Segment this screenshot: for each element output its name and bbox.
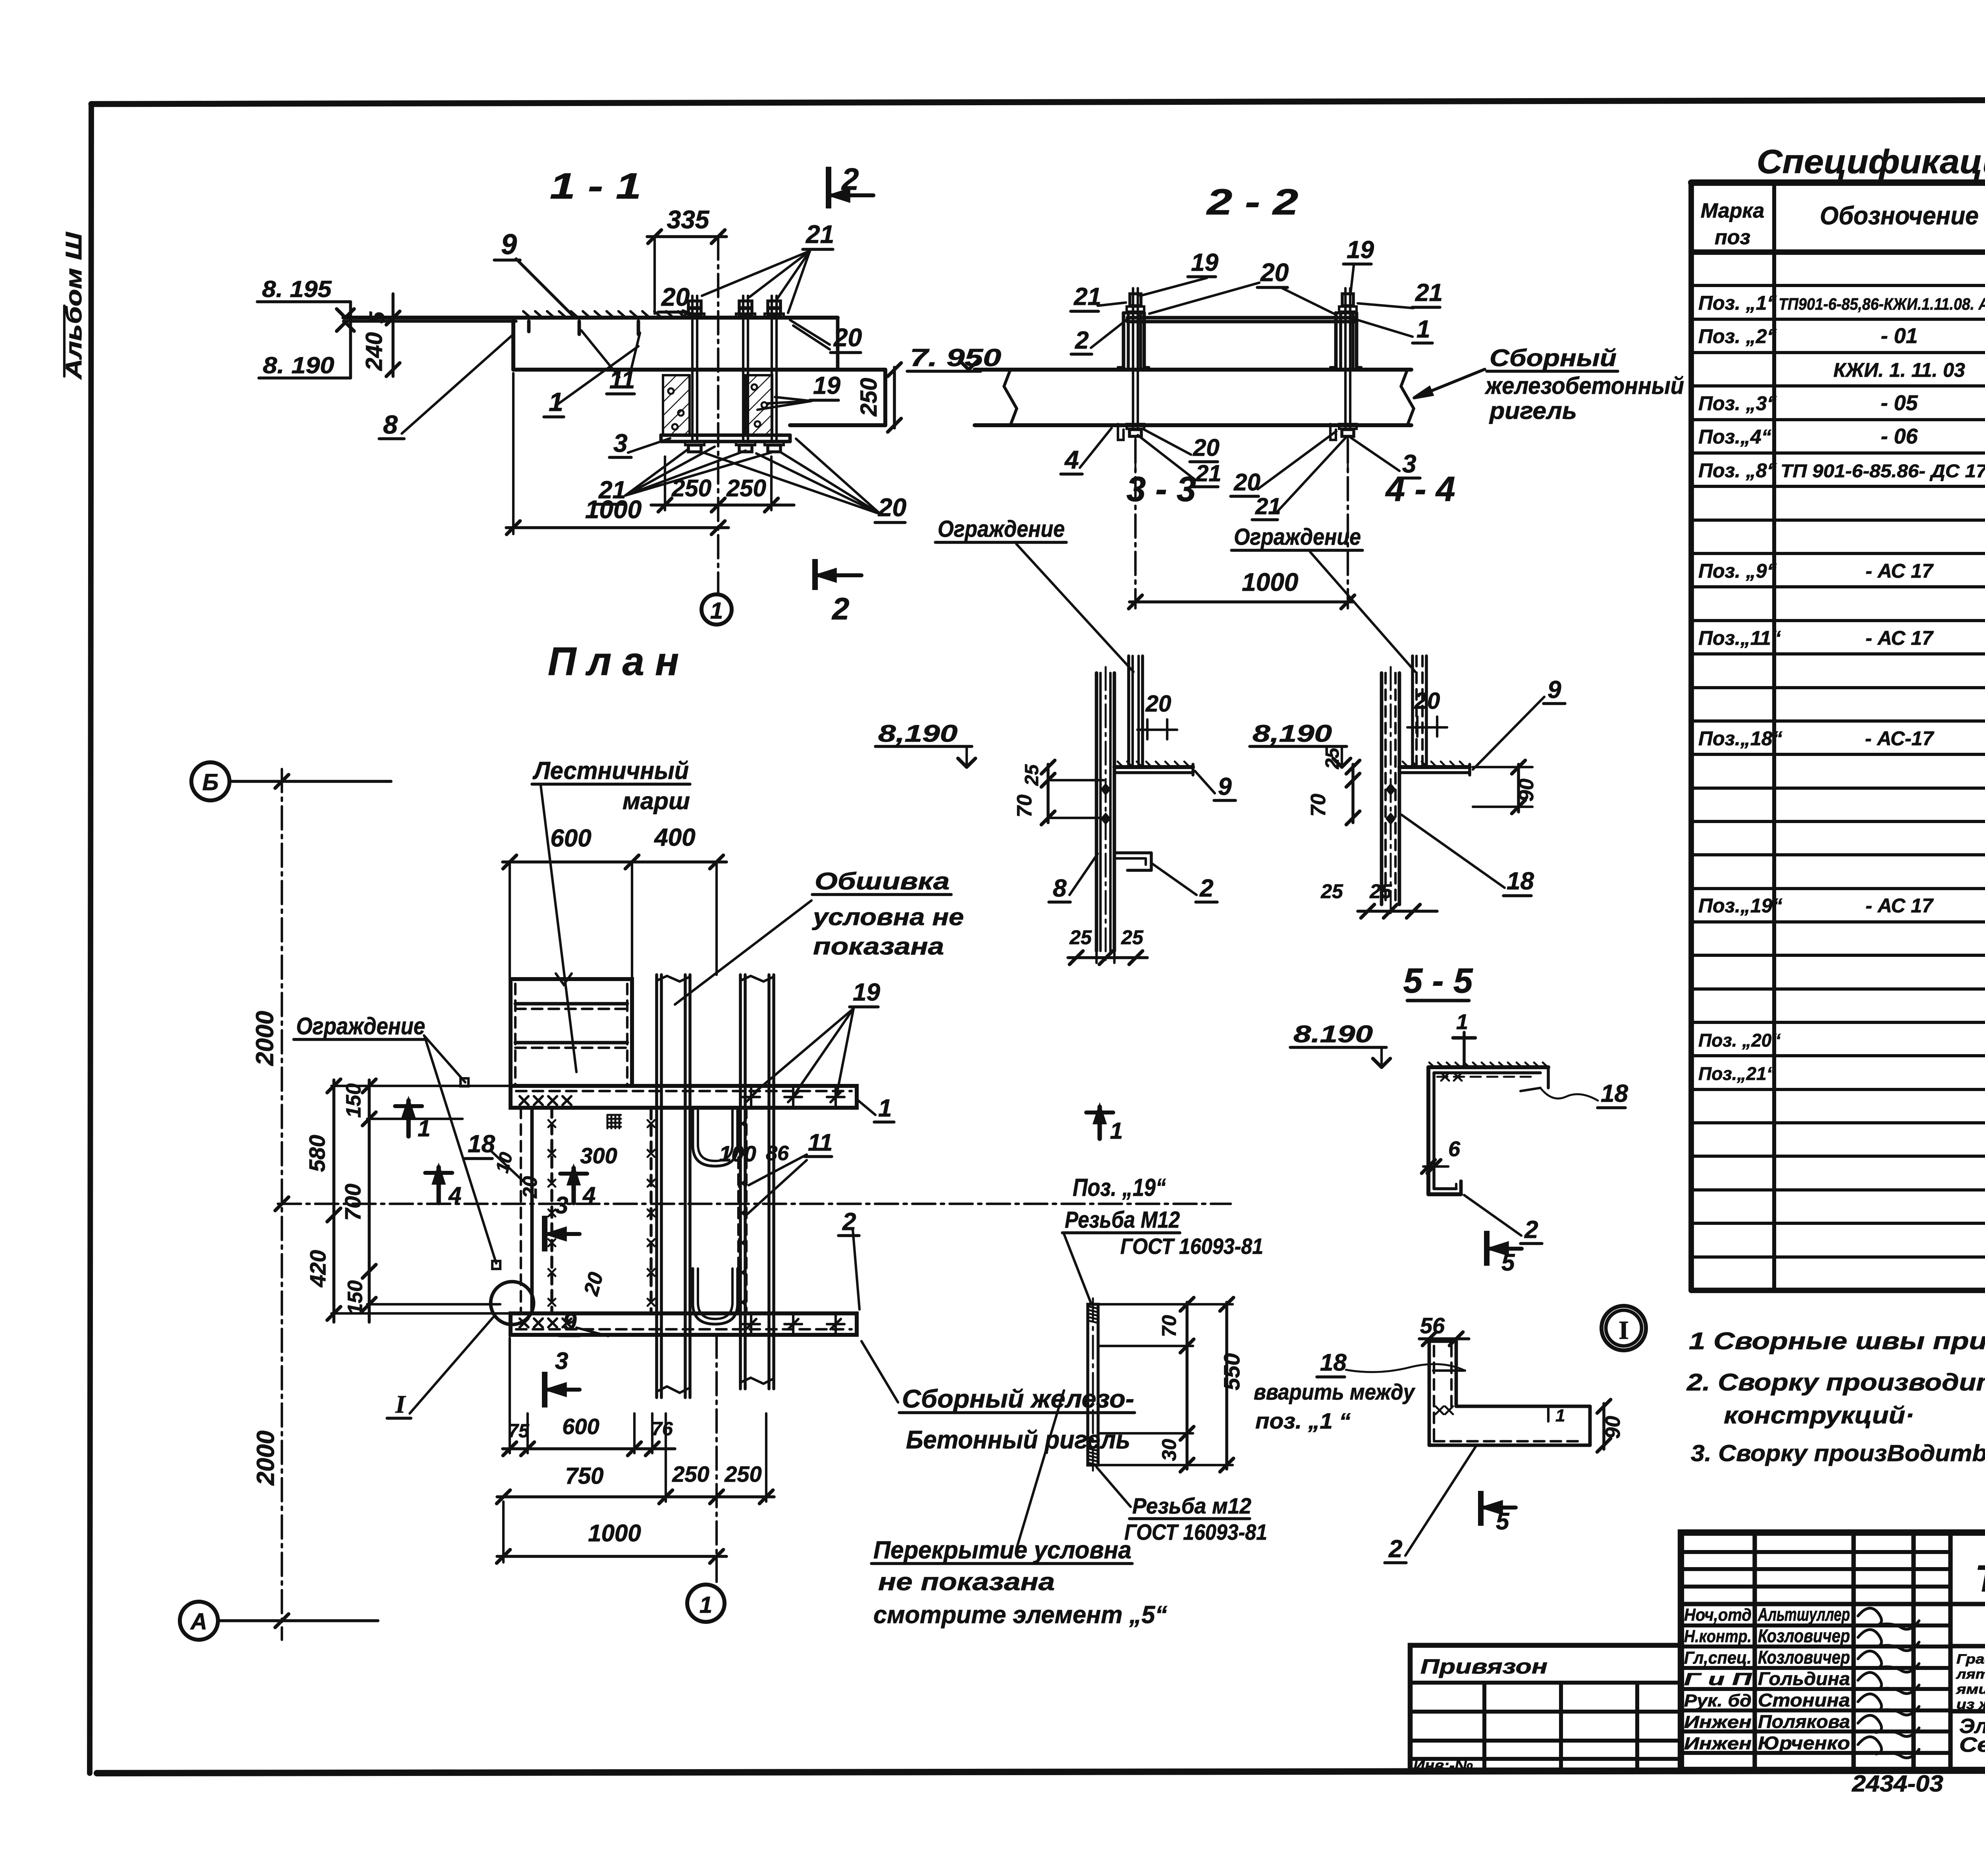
- svg-text:Поз. „3“: Поз. „3“: [1698, 392, 1777, 415]
- svg-text:П л а н: П л а н: [548, 639, 679, 684]
- svg-text:3 - 3: 3 - 3: [1127, 469, 1196, 509]
- svg-text:условна не: условна не: [812, 904, 964, 930]
- svg-text:20: 20: [1193, 434, 1220, 461]
- svg-text:250: 250: [726, 475, 766, 501]
- svg-text:2: 2: [831, 591, 849, 626]
- svg-text:Полякова: Полякова: [1758, 1711, 1850, 1732]
- svg-text:20: 20: [833, 323, 862, 352]
- svg-text:20: 20: [661, 283, 690, 311]
- svg-text:Б: Б: [202, 769, 218, 795]
- svg-text:Поз. „2“: Поз. „2“: [1698, 325, 1777, 347]
- svg-text:25: 25: [1069, 926, 1092, 949]
- svg-text:30: 30: [1158, 1439, 1180, 1461]
- svg-text:400: 400: [653, 824, 695, 851]
- svg-text:Инв:-№: Инв:-№: [1413, 1757, 1473, 1774]
- svg-text:18: 18: [1320, 1349, 1347, 1376]
- svg-text:ГОСТ 16093-81: ГОСТ 16093-81: [1124, 1519, 1267, 1544]
- svg-text:8: 8: [1053, 875, 1067, 902]
- svg-text:2434-03: 2434-03: [1852, 1771, 1943, 1797]
- svg-text:Юрченко: Юрченко: [1758, 1733, 1850, 1753]
- svg-text:21: 21: [1415, 279, 1443, 307]
- svg-text:Рук. бд: Рук. бд: [1684, 1691, 1752, 1710]
- svg-text:2: 2: [1388, 1535, 1402, 1563]
- svg-text:1 - 1: 1 - 1: [550, 166, 641, 206]
- svg-text:2: 2: [1524, 1216, 1538, 1244]
- svg-text:вварить между: вварить между: [1254, 1379, 1416, 1404]
- svg-text:5 - 5: 5 - 5: [1403, 961, 1473, 1000]
- svg-text:ГОСТ 16093-81: ГОСТ 16093-81: [1120, 1234, 1263, 1259]
- svg-text:21: 21: [598, 476, 626, 504]
- svg-text:580: 580: [304, 1135, 330, 1172]
- svg-text:Лестничный: Лестничный: [532, 757, 689, 785]
- svg-text:335: 335: [667, 205, 710, 234]
- svg-text:Г и П: Г и П: [1684, 1670, 1752, 1689]
- svg-text:2: 2: [1199, 875, 1213, 902]
- svg-text:6: 6: [1448, 1137, 1461, 1161]
- svg-text:25: 25: [1021, 764, 1043, 786]
- svg-text:3. Сворку произВодитb электр: 3. Сворку произВодитb электродами Э-42 п…: [1691, 1440, 1985, 1466]
- svg-text:Ограждение: Ограждение: [1234, 524, 1361, 550]
- svg-text:Поз.„19“: Поз.„19“: [1698, 895, 1783, 917]
- svg-text:Ограждение: Ограждение: [296, 1013, 425, 1039]
- svg-text:700: 700: [340, 1184, 365, 1220]
- svg-text:марш: марш: [622, 788, 690, 814]
- svg-text:18: 18: [1601, 1080, 1628, 1107]
- svg-text:150: 150: [342, 1084, 365, 1118]
- svg-text:70: 70: [1158, 1315, 1180, 1337]
- svg-text:20: 20: [1414, 688, 1440, 714]
- svg-text:- АС 17: - АС 17: [1866, 560, 1934, 582]
- svg-text:90: 90: [1515, 779, 1538, 802]
- svg-text:5: 5: [1501, 1249, 1515, 1276]
- svg-text:Инжен: Инжен: [1684, 1712, 1752, 1732]
- svg-text:11: 11: [808, 1129, 833, 1156]
- svg-text:75: 75: [508, 1421, 530, 1442]
- svg-text:Инжен: Инжен: [1684, 1734, 1752, 1753]
- svg-text:Поз. „19“: Поз. „19“: [1073, 1174, 1166, 1201]
- svg-text:1: 1: [1456, 1010, 1468, 1034]
- svg-text:19: 19: [853, 979, 880, 1006]
- svg-text:ТП 901- 6 -85.86-: ТП 901- 6 -85.86-: [1975, 1558, 1985, 1600]
- svg-text:Поз.„18“: Поз.„18“: [1698, 727, 1783, 750]
- svg-text:Гл,спец.: Гл,спец.: [1684, 1648, 1752, 1668]
- svg-text:Перекрытие условна: Перекрытие условна: [873, 1537, 1131, 1564]
- svg-text:Ограждение: Ограждение: [938, 516, 1065, 542]
- svg-text:- АС-17: - АС-17: [1865, 727, 1935, 750]
- svg-text:Поз.„21“: Поз.„21“: [1698, 1063, 1776, 1084]
- svg-text:18: 18: [468, 1130, 495, 1158]
- svg-text:19: 19: [813, 372, 840, 399]
- svg-text:Сборный: Сборный: [1490, 345, 1617, 371]
- svg-text:- 01: - 01: [1881, 324, 1918, 348]
- svg-text:конструкций·: конструкций·: [1724, 1402, 1914, 1429]
- svg-text:железобетонный: железобетонный: [1484, 372, 1684, 399]
- svg-text:20: 20: [1145, 691, 1172, 717]
- svg-text:76: 76: [651, 1419, 673, 1440]
- svg-text:420: 420: [305, 1250, 330, 1287]
- svg-text:- АС 17: - АС 17: [1866, 895, 1934, 917]
- svg-text:Поз. „8“: Поз. „8“: [1698, 459, 1777, 482]
- svg-text:1: 1: [878, 1095, 892, 1122]
- svg-text:25: 25: [1369, 880, 1392, 902]
- svg-text:1: 1: [700, 1592, 712, 1618]
- svg-text:21: 21: [1195, 461, 1222, 486]
- svg-text:Козловичер: Козловичер: [1758, 1647, 1850, 1668]
- svg-text:1: 1: [418, 1116, 430, 1141]
- svg-text:600: 600: [550, 825, 591, 852]
- svg-text:5: 5: [1496, 1508, 1510, 1535]
- svg-text:Поз.„11“: Поз.„11“: [1698, 627, 1781, 649]
- svg-text:Обозночение: Обозночение: [1820, 201, 1979, 230]
- svg-text:250: 250: [724, 1461, 761, 1487]
- svg-text:не показана: не показана: [878, 1568, 1055, 1596]
- svg-text:8: 8: [383, 410, 398, 439]
- svg-text:25: 25: [1121, 926, 1144, 949]
- svg-text:Градцрня двухсекционная с вент: Градцрня двухсекционная с венти-: [1956, 1652, 1985, 1667]
- svg-text:Поз. „1“: Поз. „1“: [1698, 292, 1777, 314]
- svg-text:90: 90: [1601, 1416, 1625, 1439]
- svg-text:25: 25: [1322, 747, 1343, 769]
- svg-text:4: 4: [448, 1182, 461, 1208]
- svg-text:1: 1: [1555, 1406, 1565, 1425]
- svg-text:3: 3: [555, 1348, 568, 1374]
- svg-text:9: 9: [501, 229, 517, 260]
- svg-text:поз. „1 “: поз. „1 “: [1255, 1408, 1351, 1433]
- svg-text:25: 25: [1320, 880, 1343, 902]
- svg-text:показана: показана: [813, 933, 944, 960]
- svg-text:1: 1: [1416, 316, 1430, 343]
- svg-text:Hоч,отд: Hоч,отд: [1684, 1605, 1752, 1625]
- svg-text:5: 5: [365, 311, 389, 324]
- svg-text:9: 9: [563, 1308, 577, 1336]
- svg-text:Резьба м12: Резьба м12: [1132, 1493, 1251, 1518]
- svg-text:I: I: [395, 1390, 406, 1418]
- svg-text:Поз. „20“: Поз. „20“: [1698, 1030, 1781, 1051]
- svg-text:1000: 1000: [588, 1520, 641, 1546]
- svg-text:1000: 1000: [1242, 568, 1298, 596]
- svg-text:240: 240: [361, 332, 387, 371]
- svg-text:ляторами 38Г25 капельноя с сек: ляторами 38Г25 капельноя с секци-: [1956, 1667, 1985, 1682]
- svg-text:Козловичер: Козловичер: [1758, 1625, 1850, 1646]
- svg-text:ригель: ригель: [1489, 397, 1577, 424]
- svg-text:250: 250: [672, 1461, 709, 1487]
- svg-text:смотрите элемент „5“: смотрите элемент „5“: [873, 1601, 1167, 1629]
- svg-text:поз: поз: [1715, 226, 1750, 249]
- svg-text:8.190: 8.190: [1293, 1021, 1373, 1047]
- svg-text:600: 600: [562, 1414, 599, 1439]
- svg-text:1: 1: [710, 598, 723, 624]
- svg-text:ями площодью24м2 е каркасом: ями площодью24м2 е каркасом: [1956, 1682, 1985, 1697]
- svg-text:4: 4: [582, 1182, 595, 1208]
- svg-text:2000: 2000: [251, 1011, 279, 1066]
- svg-text:Поз. „9“: Поз. „9“: [1698, 560, 1777, 582]
- svg-text:- 05: - 05: [1881, 391, 1918, 415]
- svg-text:Поз.„4“: Поз.„4“: [1698, 426, 1771, 448]
- svg-text:Сечения. Узлы.: Сечения. Узлы.: [1959, 1733, 1985, 1756]
- svg-text:8,190: 8,190: [1253, 720, 1332, 747]
- svg-text:18: 18: [1507, 868, 1534, 895]
- svg-text:1: 1: [1110, 1118, 1123, 1144]
- svg-text:ТП 901-6-85.86- ДС 17: ТП 901-6-85.86- ДС 17: [1781, 461, 1985, 481]
- svg-text:Обшивка: Обшивка: [815, 868, 950, 895]
- svg-text:3: 3: [555, 1192, 568, 1219]
- svg-text:- 06: - 06: [1881, 424, 1918, 448]
- svg-text:8. 195: 8. 195: [262, 276, 332, 302]
- svg-text:- АС 17: - АС 17: [1866, 627, 1934, 649]
- svg-text:Стонина: Стонина: [1758, 1690, 1850, 1710]
- svg-text:Спецификация к элементу: Спецификация к элементу „ 3“: [1757, 143, 1985, 180]
- svg-text:20: 20: [1260, 258, 1289, 287]
- svg-text:Альтшуллер: Альтшуллер: [1758, 1604, 1850, 1625]
- svg-text:2000: 2000: [252, 1431, 279, 1486]
- svg-text:20: 20: [878, 493, 906, 522]
- svg-text:2. Сворку производитb до у: 2. Сворку производитb до устоновки дерев…: [1686, 1369, 1985, 1396]
- svg-text:21: 21: [806, 220, 834, 249]
- svg-text:20: 20: [1233, 469, 1260, 496]
- svg-text:8,190: 8,190: [878, 720, 958, 747]
- svg-text:1 Сворные швы принимотb: 1 Сворные швы принимотb h w = 4 мм.: [1689, 1328, 1985, 1354]
- svg-text:150: 150: [344, 1280, 367, 1315]
- svg-text:70: 70: [1307, 794, 1330, 817]
- svg-text:7. 950: 7. 950: [910, 344, 1001, 372]
- svg-text:Марка: Марка: [1701, 199, 1765, 222]
- svg-text:2: 2: [1075, 327, 1089, 354]
- svg-text:ТП901-6-85,86-КЖИ.1.11.08. Ал.: ТП901-6-85,86-КЖИ.1.11.08. Ал.IV: [1779, 295, 1985, 313]
- svg-text:9: 9: [1218, 773, 1232, 800]
- svg-text:КЖИ. 1. 11. 03: КЖИ. 1. 11. 03: [1833, 359, 1965, 381]
- svg-text:А: А: [190, 1609, 207, 1635]
- svg-text:70: 70: [1013, 794, 1036, 817]
- svg-text:Резьба М12: Резьба М12: [1065, 1207, 1180, 1233]
- svg-text:2 - 2: 2 - 2: [1206, 182, 1298, 222]
- svg-text:19: 19: [1191, 249, 1218, 276]
- svg-text:Привязон: Привязон: [1420, 1655, 1548, 1678]
- svg-text:4: 4: [1064, 445, 1079, 474]
- svg-text:550: 550: [1219, 1353, 1244, 1390]
- svg-text:21: 21: [1255, 494, 1281, 519]
- svg-text:300: 300: [580, 1143, 617, 1168]
- svg-text:750: 750: [565, 1463, 604, 1489]
- svg-text:9: 9: [1548, 676, 1561, 704]
- svg-text:4 - 4: 4 - 4: [1385, 469, 1455, 509]
- svg-text:19: 19: [1347, 236, 1374, 264]
- svg-text:3: 3: [613, 429, 628, 457]
- svg-text:8. 190: 8. 190: [263, 353, 334, 378]
- svg-text:2: 2: [841, 162, 859, 197]
- svg-text:250: 250: [671, 475, 711, 501]
- svg-text:Н.контр.: Н.контр.: [1684, 1627, 1752, 1646]
- svg-text:I: I: [1619, 1316, 1629, 1345]
- svg-text:250: 250: [856, 378, 882, 417]
- svg-text:Гольдина: Гольдина: [1758, 1668, 1850, 1689]
